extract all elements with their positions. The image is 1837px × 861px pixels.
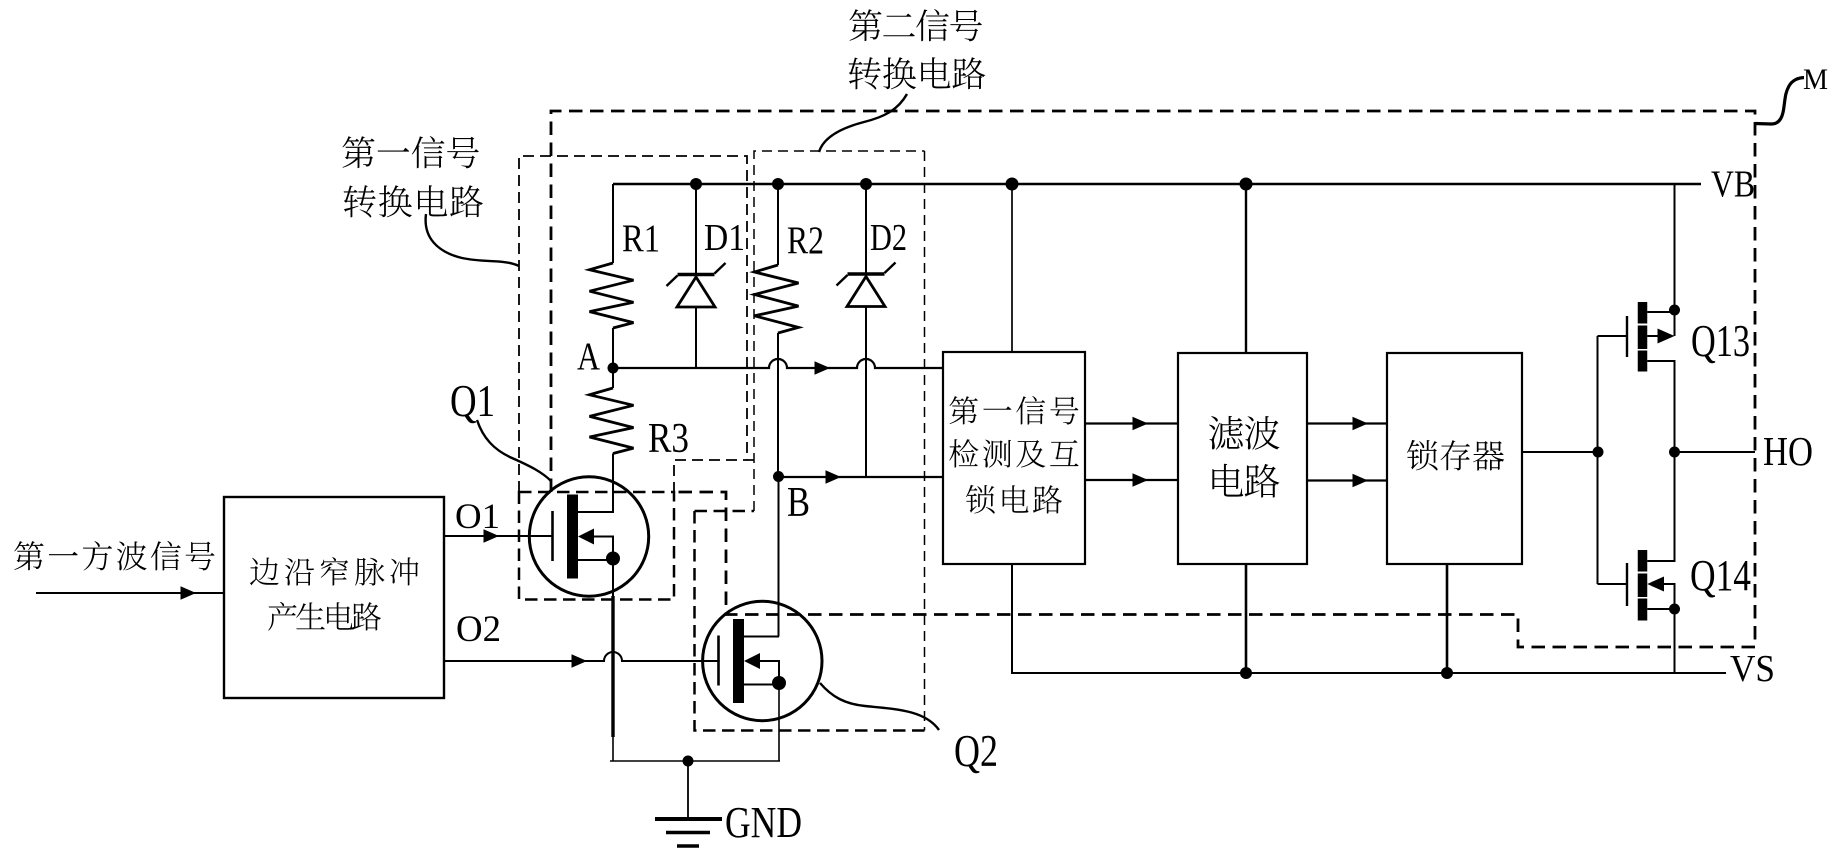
- node dot HO-gate: [1593, 447, 1604, 458]
- svg-text:HO: HO: [1763, 428, 1813, 474]
- wire O1 line: [444, 535, 553, 537]
- dashed box M outline: [551, 111, 1755, 647]
- svg-text:O1: O1: [455, 496, 500, 536]
- transistor Q1 channel bar: [567, 495, 578, 579]
- resistor R2 bottom lead: [777, 333, 779, 477]
- transistor Q2 channel bar: [733, 619, 744, 703]
- resistor R2: [755, 265, 799, 333]
- transistor Q1 body-source dot: [606, 552, 620, 566]
- wire VB to filter box: [1245, 184, 1247, 353]
- resistor R2 top lead: [777, 184, 779, 265]
- node B: [773, 471, 784, 482]
- resistor R1 bottom lead: [612, 328, 614, 368]
- transistor Q2 drain corner: [778, 636, 781, 638]
- ground bar2: [666, 831, 710, 835]
- svg-text:A: A: [577, 335, 600, 378]
- wire input signal line: [36, 592, 224, 594]
- wire VB rail: [613, 183, 1701, 186]
- svg-text:VB: VB: [1711, 164, 1755, 206]
- transistor Q14 gate lead: [1598, 583, 1628, 585]
- dashed box Q2 (heavy): [695, 511, 925, 731]
- leader first signal conversion label: [426, 214, 519, 266]
- leader Q2 label: [820, 683, 939, 730]
- arrow node B line: [826, 470, 842, 484]
- transistor Q14 body arrow: [1647, 577, 1664, 592]
- block text detect line1: [949, 396, 977, 424]
- block text detect line2: [949, 439, 978, 467]
- transistor Q2 body lead: [760, 661, 779, 683]
- wire B to Q2 drain: [778, 477, 780, 637]
- dashed box second signal conversion circuit: [754, 151, 925, 731]
- wire latch to HO line: [1522, 451, 1598, 453]
- transistor Q2 drain lead: [744, 636, 779, 638]
- transistor Q13 body arrow: [1658, 329, 1675, 344]
- block text edge narrow pulse line2: [268, 602, 296, 631]
- transistor Q1 gate line: [551, 511, 554, 561]
- transistor Q14 drain lead: [1647, 452, 1674, 561]
- wire Q2 source down: [778, 682, 780, 761]
- resistor R1: [590, 263, 634, 328]
- svg-text:D1: D1: [704, 217, 745, 259]
- block text edge narrow pulse line1: [250, 557, 279, 585]
- transistor Q1 source down lead: [612, 559, 614, 596]
- node dot VB-D1: [690, 178, 702, 190]
- transistor Q13 gate lead: [1598, 335, 1628, 337]
- transistor Q13 gate line: [1626, 316, 1628, 357]
- label first square wave signal: [14, 541, 43, 570]
- node dot VB-R2: [772, 178, 784, 190]
- ground stem: [687, 761, 689, 819]
- transistor Q14 channel bar: [1638, 550, 1648, 621]
- transistor Q13 source lead: [1647, 361, 1674, 452]
- node dot VB-filter: [1240, 178, 1253, 191]
- wire latch box to VS: [1446, 564, 1449, 673]
- svg-text:Q1: Q1: [450, 376, 495, 426]
- wire detect to filter lower: [1085, 479, 1178, 481]
- node A: [608, 363, 619, 374]
- node dot GND: [683, 756, 694, 767]
- arrow input: [181, 586, 197, 600]
- node dot VS-filter: [1240, 667, 1252, 679]
- node dot VB-detect: [1006, 178, 1019, 191]
- wire node A line: [613, 359, 943, 368]
- arrow detect-filter upper: [1133, 417, 1149, 431]
- transistor Q13 channel bar: [1638, 302, 1648, 372]
- arrow filter-latch upper: [1353, 417, 1369, 431]
- node dot HO-Q13Q14: [1669, 447, 1680, 458]
- svg-text:GND: GND: [725, 798, 802, 847]
- transistor Q13 body lead: [1647, 335, 1659, 337]
- zener diode D2 top lead: [865, 184, 867, 274]
- transistor Q1 drain lead: [578, 511, 613, 513]
- leader Q1 label: [477, 420, 551, 481]
- svg-text:R2: R2: [787, 219, 824, 262]
- node dot VS-latch: [1441, 667, 1453, 679]
- svg-text:Q2: Q2: [954, 726, 998, 776]
- zener diode D2 bottom lead: [865, 307, 867, 478]
- wire VB to Q13 drain: [1674, 184, 1676, 336]
- block filter circuit box: [1178, 353, 1307, 564]
- svg-text:Q13: Q13: [1691, 316, 1750, 366]
- dashed box Q1 (heavy): [519, 492, 674, 600]
- resistor R1 top lead: [612, 184, 614, 263]
- transistor Q2 gate line: [717, 636, 720, 686]
- transistor Q14 source lead: [1647, 608, 1674, 610]
- svg-text:B: B: [787, 480, 810, 526]
- ground bar3: [677, 844, 699, 848]
- dashed box first signal conversion circuit: [519, 156, 754, 492]
- block first signal detect & interlock box: [943, 352, 1085, 564]
- wire filter to latch lower: [1307, 479, 1387, 481]
- wire Q14 source to VS: [1674, 609, 1676, 673]
- transistor Q1 source lead: [578, 559, 614, 561]
- node dot VB-D2: [860, 178, 872, 190]
- arrow O2: [572, 654, 588, 668]
- arrow node A line: [815, 361, 831, 375]
- wire Q13 Q14 gate vertical: [1597, 336, 1599, 584]
- arrow detect-filter lower: [1133, 473, 1149, 487]
- wire O2 line: [444, 652, 720, 661]
- transistor Q2 source lead: [744, 684, 780, 686]
- transistor Q2 body-source dot: [772, 676, 786, 690]
- wire node B line: [779, 476, 944, 478]
- transistor Q14 body lead: [1663, 584, 1675, 609]
- svg-text:M: M: [1803, 63, 1828, 96]
- block edge narrow pulse generator box: [224, 497, 444, 698]
- transistor Q2 body arrow: [744, 653, 760, 669]
- zener diode D1 top lead: [695, 184, 697, 275]
- node dot Q14 source: [1669, 604, 1680, 615]
- svg-text:O2: O2: [456, 609, 501, 650]
- label second signal conversion line1: [849, 9, 881, 41]
- zener diode D2: [848, 272, 885, 276]
- resistor R3 top lead: [612, 368, 614, 388]
- transistor Q13 drain lead: [1647, 311, 1674, 313]
- transistor Q1 circle: [529, 477, 648, 596]
- transistor Q1 body arrow: [578, 529, 594, 545]
- label second signal conversion line2: [849, 57, 881, 89]
- zener diode D1: [678, 273, 715, 277]
- wire detect to filter upper: [1085, 422, 1178, 424]
- svg-text:VS: VS: [1730, 648, 1775, 690]
- svg-text:R3: R3: [648, 416, 689, 462]
- transistor Q1 body lead: [594, 537, 613, 559]
- svg-text:Q14: Q14: [1690, 551, 1751, 600]
- wire Q1 source to GND rail: [612, 737, 614, 761]
- label first signal conversion line2: [344, 185, 376, 217]
- wire filter box to VS: [1245, 564, 1248, 673]
- block text detect line3: [966, 485, 995, 514]
- block text filter line1: [1209, 416, 1243, 450]
- node dot Q13 drain: [1669, 305, 1680, 316]
- ground bar1: [655, 817, 722, 821]
- resistor R3: [590, 388, 634, 454]
- block latch box: [1387, 353, 1522, 564]
- arrow filter-latch lower: [1353, 474, 1369, 488]
- wire VB to detect box: [1011, 184, 1013, 352]
- label first signal conversion line1: [342, 136, 374, 168]
- leader second signal conversion label: [819, 94, 907, 152]
- block text latch: [1407, 440, 1438, 471]
- resistor R3 bottom lead: [612, 454, 614, 514]
- zener diode D1 bottom lead: [695, 307, 697, 368]
- wire detect box to VS: [1012, 564, 1726, 673]
- svg-text:R1: R1: [622, 217, 660, 260]
- wire filter to latch upper: [1307, 422, 1387, 424]
- wire GND rail: [610, 760, 780, 762]
- block text filter line2: [1212, 464, 1243, 497]
- transistor Q14 gate line: [1626, 563, 1628, 606]
- leader M label: [1755, 78, 1804, 124]
- arrow O1: [484, 529, 500, 543]
- transistor Q2 circle: [703, 601, 822, 720]
- svg-text:D2: D2: [870, 217, 907, 259]
